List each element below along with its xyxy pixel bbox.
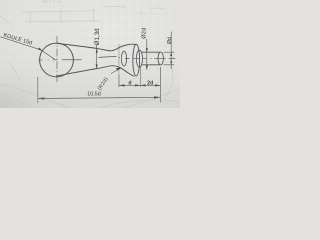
svg-text:Ød: Ød: [167, 37, 173, 44]
svg-text:Ø2d: Ø2d: [141, 27, 147, 38]
svg-text:no: no: [139, 11, 143, 16]
svg-text:Ø1,3d: Ø1,3d: [95, 28, 101, 45]
svg-text:obr. 1. r = d.: obr. 1. r = d.: [42, 0, 61, 3]
